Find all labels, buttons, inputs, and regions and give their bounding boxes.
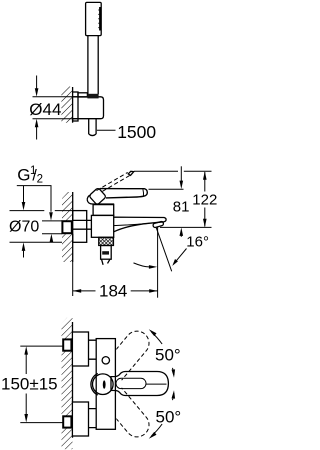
dimension 150 line + arrows xyxy=(25,355,27,415)
bottom union nut (front view) xyxy=(63,416,71,427)
spout (side view) xyxy=(114,217,166,232)
wall hatch (top view) xyxy=(61,87,72,123)
svg-text:50°: 50° xyxy=(155,345,181,364)
stream angle line 16deg xyxy=(156,228,172,272)
aerator xyxy=(153,221,164,228)
raised lever (dashed) line 2 xyxy=(103,176,130,192)
union nut (side view) xyxy=(62,221,71,233)
inlet pipe (side view) xyxy=(73,220,92,229)
50deg top arc segment 2 xyxy=(173,368,174,375)
holder grip ring (dark) xyxy=(87,94,98,99)
raised tip extension line xyxy=(134,170,212,172)
svg-text:1500: 1500 xyxy=(117,122,156,142)
wall hatch (front view) lower xyxy=(62,428,73,449)
50deg bottom arc arrowheads xyxy=(172,390,176,398)
dimension 184 right arrow xyxy=(149,289,157,293)
lowered lever -50deg (dashed) xyxy=(103,388,149,437)
svg-text:122: 122 xyxy=(192,192,217,209)
svg-text:81: 81 xyxy=(173,199,190,216)
pivot circle xyxy=(93,374,114,395)
raised lever (dashed) line 1 xyxy=(97,172,128,190)
dimension 150 extension lines xyxy=(20,346,63,423)
shower handle xyxy=(87,36,89,95)
hose stub end xyxy=(102,259,111,265)
spray face band xyxy=(99,7,101,31)
50deg bottom arc segment 1 xyxy=(173,393,174,400)
shower hose below holder xyxy=(88,119,90,134)
water stream line xyxy=(157,228,159,298)
diverter knob circle xyxy=(102,357,109,364)
dimension Ø44 top arrow xyxy=(36,76,38,90)
knob front curl xyxy=(87,195,93,204)
raised lever +50deg (dashed) xyxy=(103,331,149,380)
holder top boss xyxy=(78,93,87,97)
holder wall plate xyxy=(73,92,78,121)
wall face extension to 184 dim xyxy=(72,262,74,296)
dimension 184 line right xyxy=(131,290,158,292)
spray face teeth xyxy=(98,10,100,30)
bottom inlet pipe (front view) xyxy=(89,409,97,428)
mixer body (side view) xyxy=(91,215,113,237)
dimension Ø70 bottom arrow xyxy=(23,251,25,258)
bottom escutcheon (front view) xyxy=(72,402,88,436)
escutcheon (side view) xyxy=(73,211,87,243)
dimension Ø70 extension top xyxy=(10,210,73,212)
svg-text:Ø70: Ø70 xyxy=(9,218,39,235)
top escutcheon (front view) xyxy=(72,332,88,366)
hose end xyxy=(89,134,96,136)
svg-text:2: 2 xyxy=(37,173,43,185)
G 1/2 bracket underline xyxy=(17,186,51,212)
svg-text:50°: 50° xyxy=(156,407,182,426)
spout outlet extension line xyxy=(160,226,212,228)
wall hatch upper (side view) xyxy=(62,192,73,221)
svg-text:Ø44: Ø44 xyxy=(29,100,61,119)
dimension 81 top arrow xyxy=(180,166,182,181)
dimension Ø44 extension lines xyxy=(33,96,78,98)
cartridge cap xyxy=(93,204,114,215)
lever centerline xyxy=(146,383,167,385)
dimension 184 line left xyxy=(73,290,96,292)
holder body xyxy=(73,97,104,119)
16deg arc arrow to stream line xyxy=(134,263,150,267)
raised lever tip (solid) xyxy=(128,171,134,175)
lever knob (side view) xyxy=(89,188,107,206)
lever inner contour xyxy=(116,378,146,388)
dimension 81 bottom arrow xyxy=(180,236,182,237)
wall hatch lower (side view) xyxy=(62,234,73,262)
16deg leader arrow to angled line xyxy=(177,249,187,261)
dimension 184 left arrow xyxy=(73,289,81,293)
thread nut bottom arrow xyxy=(50,241,52,244)
dimension 122 line xyxy=(204,172,206,227)
50deg top arc segment 1 xyxy=(152,332,163,344)
lever tip cap line xyxy=(142,189,145,197)
wall hatch (front view) middle xyxy=(62,351,73,416)
top union nut (front view) xyxy=(63,339,71,350)
mixer body (front view) xyxy=(96,339,115,430)
dimension Ø44 bottom arrow xyxy=(36,127,38,140)
G 1/2 arrow to thread xyxy=(49,212,53,220)
lever arm (front view) xyxy=(111,372,168,396)
hose adapter slot (dark) xyxy=(102,251,109,254)
svg-text:150±15: 150±15 xyxy=(1,374,58,393)
svg-text:16°: 16° xyxy=(186,234,209,251)
hand shower head xyxy=(86,2,102,35)
wall hatch (front view) upper xyxy=(62,318,73,340)
pivot slot (dark) xyxy=(103,380,106,388)
wall face line (top view) xyxy=(72,87,74,92)
hose connection knurled nut xyxy=(99,237,114,245)
wall face line (front view) xyxy=(72,322,74,438)
50deg bottom arc segment 2 xyxy=(152,424,163,436)
top inlet pipe (front view) xyxy=(89,340,97,359)
svg-text:G: G xyxy=(17,166,30,185)
wall face line (side view) xyxy=(72,192,74,262)
hose adapter below body xyxy=(101,246,112,260)
dimension Ø70 extension bottom xyxy=(10,241,63,243)
lever arm (side view) xyxy=(100,189,147,198)
pivot escutcheon outer arc xyxy=(91,373,98,395)
svg-text:184: 184 xyxy=(99,282,127,301)
hose length leader line xyxy=(97,129,116,131)
lever top extension line xyxy=(149,188,184,190)
shared arrow G/Ø70 top xyxy=(23,186,25,203)
spout underside inner line xyxy=(114,223,149,225)
thread nut extension lines xyxy=(42,221,62,234)
50deg top arc arrowheads xyxy=(149,329,157,336)
